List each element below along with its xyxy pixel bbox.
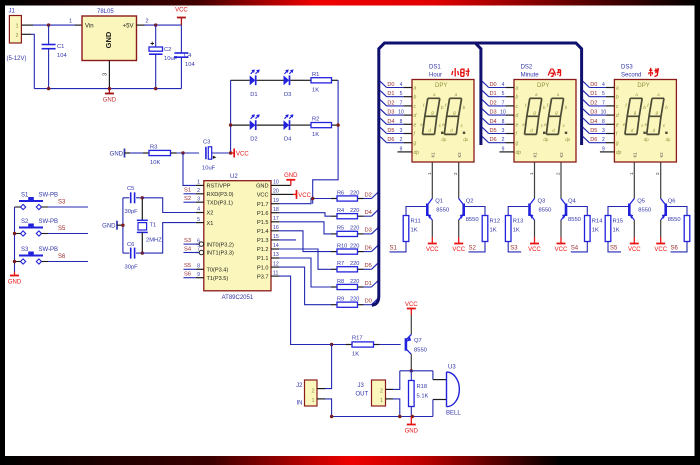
- svg-text:2: 2: [655, 172, 660, 175]
- node C5 junction: [141, 196, 144, 199]
- svg-text:D2: D2: [490, 100, 497, 106]
- svg-text:P3.7: P3.7: [257, 274, 269, 280]
- svg-text:R10: R10: [337, 243, 347, 249]
- svg-text:d: d: [616, 113, 619, 119]
- svg-text:12: 12: [273, 261, 279, 267]
- svg-text:C2: C2: [164, 47, 171, 53]
- svg-text:J1: J1: [9, 9, 16, 15]
- svg-text:b: b: [516, 95, 519, 101]
- frame bottom bar: [0, 456, 700, 465]
- svg-text:10: 10: [500, 110, 506, 116]
- svg-text:C6: C6: [127, 242, 134, 248]
- digit glyph DS1-2: [442, 92, 468, 142]
- svg-text:D3: D3: [590, 110, 597, 116]
- resistor R1: [305, 72, 338, 94]
- transistor Q5: [629, 163, 635, 244]
- pin 8 T0(P3.4): [196, 264, 229, 274]
- svg-text:9: 9: [502, 146, 505, 152]
- wire J2 pin2 up to base node: [317, 345, 332, 389]
- pin DS2 b: [482, 90, 518, 100]
- svg-text:GND: GND: [103, 98, 117, 104]
- pin DS1 a: [380, 81, 417, 91]
- svg-text:13: 13: [273, 252, 279, 258]
- power GND regulator: [103, 89, 117, 104]
- svg-text:AT89C2051: AT89C2051: [222, 295, 254, 301]
- svg-text:9: 9: [197, 272, 200, 278]
- pin DS3 c: [583, 100, 619, 110]
- svg-text:(5-12V): (5-12V): [7, 56, 27, 62]
- svg-text:1K: 1K: [513, 228, 520, 234]
- resistor R11: [403, 216, 421, 242]
- svg-text:D0: D0: [490, 82, 497, 88]
- wire R9 to bus: [364, 304, 372, 306]
- node bell top junction: [410, 369, 413, 372]
- wire R6 to bus: [364, 198, 372, 200]
- svg-text:D3: D3: [490, 110, 497, 116]
- svg-text:1: 1: [529, 172, 534, 175]
- wire J3 pin1 to rail: [386, 399, 400, 417]
- svg-text:3: 3: [602, 128, 605, 134]
- svg-text:8: 8: [602, 119, 605, 125]
- svg-text:D3: D3: [365, 228, 372, 234]
- svg-text:2: 2: [197, 188, 200, 194]
- wire D3-R1: [290, 79, 305, 81]
- svg-text:5: 5: [197, 217, 200, 223]
- node crystal gnd junction: [121, 224, 124, 227]
- svg-text:R17: R17: [352, 336, 363, 342]
- wire S2 to net S5: [48, 233, 88, 235]
- bus entry D0: [372, 298, 379, 305]
- wire R5 to bus: [364, 233, 372, 235]
- node LED rail junctions: [229, 123, 232, 126]
- svg-text:VCC: VCC: [528, 247, 541, 253]
- connector J2: [296, 380, 317, 407]
- svg-text:1K: 1K: [352, 352, 359, 358]
- svg-text:15: 15: [273, 234, 279, 240]
- node C6 junction: [141, 251, 144, 254]
- svg-text:S6: S6: [184, 272, 191, 278]
- svg-text:P1.3: P1.3: [257, 238, 269, 244]
- node VCC junction: [229, 151, 232, 154]
- wire J1 pin2 down to ground rail: [21, 34, 34, 88]
- wire pin to R7: [279, 249, 331, 269]
- svg-text:2MHZ: 2MHZ: [146, 238, 162, 244]
- wire P3.7 to R17: [279, 276, 346, 344]
- svg-text:dp: dp: [543, 137, 548, 142]
- node rail junctions: [47, 87, 50, 90]
- resistor R15: [605, 216, 623, 242]
- wire base Q2: [465, 207, 485, 216]
- resistor R7: [331, 267, 364, 272]
- svg-text:S3: S3: [510, 246, 518, 252]
- bell U3: [446, 365, 461, 417]
- svg-text:Q5: Q5: [637, 199, 645, 205]
- svg-text:dp: dp: [644, 137, 649, 142]
- svg-text:9: 9: [400, 146, 403, 152]
- svg-text:D3: D3: [387, 110, 394, 116]
- svg-text:D6: D6: [590, 137, 597, 143]
- node P1.7 R6 junction: [311, 197, 314, 200]
- svg-text:VCC: VCC: [628, 247, 641, 253]
- svg-text:GND: GND: [284, 173, 298, 179]
- wire J1 pin1 to U1 Vin: [21, 19, 82, 26]
- wire node to RST pin1: [183, 153, 196, 185]
- svg-text:7: 7: [400, 100, 403, 106]
- svg-text:RST/VPP: RST/VPP: [207, 184, 231, 190]
- wire net S1: [184, 193, 196, 195]
- svg-text:Hour: Hour: [429, 73, 442, 79]
- svg-text:4: 4: [502, 82, 505, 88]
- svg-text:DPY: DPY: [435, 83, 447, 89]
- svg-text:5: 5: [502, 91, 505, 97]
- svg-text:8: 8: [400, 119, 403, 125]
- svg-text:GND: GND: [104, 31, 113, 48]
- svg-text:P1.7: P1.7: [257, 202, 269, 208]
- pin DS1 g: [380, 136, 417, 146]
- svg-text:2: 2: [453, 172, 458, 175]
- wire J3 pin2 stub: [386, 388, 394, 390]
- svg-text:D5: D5: [590, 128, 597, 134]
- svg-text:OUT: OUT: [356, 392, 369, 398]
- svg-text:D1: D1: [250, 92, 257, 98]
- svg-text:D5: D5: [365, 263, 372, 269]
- pin 1 RST/VPP: [196, 180, 231, 190]
- wire R10 to bus: [364, 251, 372, 253]
- wire D2-D4: [257, 124, 284, 126]
- node rail junctions bottom: [330, 415, 333, 418]
- resistor R18 5.1K: [409, 371, 429, 417]
- pin 6 INT0(P3.2): [196, 238, 234, 248]
- svg-text:dp: dp: [666, 137, 671, 142]
- svg-text:SW-PB: SW-PB: [39, 247, 59, 253]
- pin DS3 g: [583, 136, 619, 146]
- svg-text:Q7: Q7: [414, 338, 422, 344]
- svg-text:D1: D1: [387, 91, 394, 97]
- svg-text:R13: R13: [513, 219, 524, 225]
- power GND crystal: [102, 221, 123, 230]
- wire R15 to S5: [608, 242, 621, 252]
- svg-text:e: e: [616, 122, 619, 128]
- resistor R5: [331, 231, 364, 236]
- svg-text:S4: S4: [571, 246, 579, 252]
- svg-text:D2: D2: [387, 100, 394, 106]
- svg-text:Vin: Vin: [85, 24, 94, 30]
- wire pin to R10: [279, 231, 331, 252]
- svg-text:T0(P3.4): T0(P3.4): [207, 268, 229, 274]
- svg-text:220: 220: [350, 190, 359, 196]
- wire R11 to S1: [390, 242, 407, 252]
- svg-text:a: a: [414, 86, 417, 92]
- svg-text:Q1: Q1: [435, 199, 443, 205]
- svg-text:S3: S3: [184, 238, 191, 244]
- svg-text:dp: dp: [516, 150, 522, 156]
- resistor R13: [505, 216, 523, 242]
- wire pin to R4: [279, 213, 331, 217]
- svg-text:dp: dp: [463, 137, 468, 142]
- wire GND to R3: [130, 152, 143, 154]
- svg-text:R1: R1: [312, 72, 319, 78]
- wire D4-R2: [290, 124, 305, 126]
- svg-text:220: 220: [350, 261, 359, 267]
- svg-text:1: 1: [15, 24, 18, 30]
- svg-text:S5: S5: [58, 226, 66, 232]
- wire ground rail: [34, 88, 181, 90]
- svg-text:2: 2: [380, 389, 383, 395]
- svg-text:Q3: Q3: [538, 199, 546, 205]
- power VCC Q4 emitter: [555, 244, 568, 254]
- wire C3 to VCC node: [212, 152, 231, 154]
- svg-text:VCC: VCC: [298, 193, 311, 199]
- svg-text:DPY: DPY: [637, 83, 649, 89]
- svg-text:R9: R9: [337, 297, 344, 303]
- svg-text:D2: D2: [365, 192, 372, 198]
- power VCC Q3 emitter: [528, 244, 541, 254]
- power GND R3: [110, 149, 130, 158]
- svg-text:DS2: DS2: [521, 65, 533, 71]
- pin 7 INT1(P3.3): [196, 247, 234, 257]
- wire pin to R9: [279, 267, 331, 305]
- svg-text:S3: S3: [21, 247, 29, 253]
- capacitor C6 30pF: [123, 242, 142, 271]
- wire LED row2: [231, 124, 250, 126]
- svg-text:K1: K1: [633, 152, 638, 158]
- wire net S4: [184, 252, 200, 254]
- digit glyph DS2-1: [522, 92, 548, 142]
- svg-text:D4: D4: [284, 137, 292, 143]
- svg-text:1K: 1K: [490, 228, 497, 234]
- svg-text:5: 5: [400, 91, 403, 97]
- wire pin15 stub: [279, 239, 296, 241]
- svg-text:D3: D3: [284, 92, 291, 98]
- svg-text:7: 7: [502, 100, 505, 106]
- svg-text:19: 19: [273, 198, 279, 204]
- wire base Q3: [508, 207, 528, 216]
- svg-text:4: 4: [197, 207, 200, 213]
- wire pin to R5: [279, 222, 331, 234]
- resistor R4: [331, 214, 364, 219]
- svg-text:8550: 8550: [466, 217, 479, 223]
- power VCC Q2 emitter: [452, 244, 465, 254]
- pin DS2 dp: [500, 146, 522, 156]
- digit glyph DS3-1: [623, 92, 649, 142]
- wire loop right to bell: [432, 371, 434, 380]
- wire U1 pin3 to ground: [103, 61, 110, 89]
- pin DS2 d: [482, 109, 518, 119]
- wire bottom ground rail: [332, 416, 433, 418]
- svg-text:20: 20: [273, 189, 279, 195]
- svg-text:D1: D1: [590, 91, 597, 97]
- svg-text:R8: R8: [337, 279, 344, 285]
- wire base Q5: [608, 207, 628, 216]
- svg-text:10uF: 10uF: [202, 166, 216, 172]
- svg-text:1: 1: [380, 398, 383, 404]
- svg-text:VCC: VCC: [555, 247, 568, 253]
- svg-text:D4: D4: [387, 119, 394, 125]
- svg-text:Minute: Minute: [521, 73, 540, 79]
- power VCC Q5 emitter: [628, 244, 641, 254]
- label chinese Hour: [452, 68, 470, 77]
- wire J2 pin1 to ground rail: [317, 399, 332, 417]
- crystal T1 2MHZ: [137, 198, 162, 253]
- wire R4 to bus: [364, 215, 372, 217]
- digit glyph DS2-2: [544, 92, 570, 142]
- svg-text:D2: D2: [590, 100, 597, 106]
- svg-text:8550: 8550: [436, 208, 449, 214]
- svg-text:Q6: Q6: [668, 199, 676, 205]
- svg-text:RXD(P3.0): RXD(P3.0): [207, 192, 234, 198]
- svg-text:D4: D4: [490, 119, 497, 125]
- svg-text:VCC: VCC: [405, 302, 418, 308]
- bus entry D5: [372, 263, 379, 270]
- pin 12 P1.0: [257, 261, 279, 271]
- wire R17 to Q7 base: [380, 344, 401, 346]
- svg-text:P1.0: P1.0: [257, 265, 269, 271]
- pin 4 X2: [196, 207, 214, 217]
- switch S2 SW-PB: [15, 219, 59, 236]
- svg-text:3: 3: [197, 196, 200, 202]
- svg-text:X2: X2: [207, 211, 214, 217]
- svg-text:VCC: VCC: [175, 8, 188, 14]
- svg-text:7: 7: [197, 247, 200, 253]
- capacitor C3 10uF: [202, 140, 216, 172]
- svg-text:D1: D1: [365, 281, 372, 287]
- svg-text:DPY: DPY: [537, 83, 549, 89]
- pin 9 T1(P3.5): [196, 272, 229, 282]
- svg-text:R12: R12: [490, 219, 501, 225]
- wire crystal left rail: [122, 198, 124, 253]
- bus main: [372, 43, 582, 305]
- svg-text:R5: R5: [337, 226, 344, 232]
- svg-text:R11: R11: [411, 219, 421, 225]
- node RST junction: [181, 151, 184, 154]
- power GND pin10: [279, 173, 298, 185]
- node switch junctions: [13, 232, 16, 235]
- bus entry D2: [372, 192, 379, 199]
- wire R16 to S6: [671, 242, 688, 252]
- svg-text:S2: S2: [21, 219, 29, 225]
- wire C5 to X2 pin4: [142, 198, 196, 213]
- wire net S3: [184, 243, 200, 245]
- svg-text:C4: C4: [184, 53, 192, 59]
- wire LED left rail: [230, 80, 232, 153]
- pin DS1 f: [380, 127, 416, 137]
- svg-text:S6: S6: [671, 246, 679, 252]
- wire R12 to S2: [469, 242, 486, 252]
- svg-text:8550: 8550: [539, 208, 552, 214]
- svg-text:VCC: VCC: [257, 193, 269, 199]
- svg-text:10K: 10K: [150, 160, 160, 166]
- svg-text:g: g: [414, 141, 417, 147]
- wire net S6: [184, 277, 196, 279]
- wire R8 to bus: [364, 286, 372, 288]
- svg-text:DS3: DS3: [621, 65, 633, 71]
- power VCC Q6 emitter: [654, 244, 667, 254]
- pin DS1 dp: [398, 146, 420, 156]
- svg-text:P1.1: P1.1: [257, 256, 269, 262]
- transistor Q7 8550: [406, 335, 427, 355]
- svg-text:10: 10: [398, 110, 404, 116]
- svg-text:14: 14: [273, 243, 279, 249]
- resistor R2: [305, 117, 338, 139]
- connector J1: [7, 9, 27, 63]
- pin DS3 d: [583, 109, 619, 119]
- bus branch DS2: [475, 43, 481, 145]
- transistor Q3: [529, 163, 535, 244]
- svg-text:18: 18: [273, 207, 279, 213]
- wire LED right rail to P1.7 net: [313, 80, 338, 203]
- wire U1 +5V to VCC: [137, 19, 182, 26]
- svg-text:1K: 1K: [592, 228, 599, 234]
- pin 20 VCC: [257, 189, 279, 199]
- capacitor C4: [174, 25, 195, 89]
- svg-text:S1: S1: [390, 246, 398, 252]
- bus entry D6: [372, 245, 379, 252]
- svg-text:TXD(P3.1): TXD(P3.1): [207, 200, 234, 206]
- wire S1 to net S3: [48, 206, 88, 208]
- power VCC Q1 emitter: [426, 244, 439, 254]
- svg-text:8: 8: [197, 264, 200, 270]
- svg-text:X1: X1: [207, 221, 214, 227]
- svg-text:D1: D1: [490, 91, 497, 97]
- svg-text:11: 11: [273, 270, 278, 276]
- svg-text:P1.6: P1.6: [257, 211, 269, 217]
- svg-text:INT1(P3.3): INT1(P3.3): [207, 251, 234, 257]
- power VCC top: [175, 8, 188, 26]
- svg-text:3: 3: [400, 128, 403, 134]
- svg-text:Second: Second: [621, 73, 641, 79]
- svg-text:P1.2: P1.2: [257, 247, 269, 253]
- svg-text:1K: 1K: [411, 228, 418, 234]
- svg-text:3: 3: [103, 73, 109, 76]
- power GND switches: [8, 272, 22, 286]
- svg-text:U3: U3: [448, 365, 456, 371]
- svg-text:1K: 1K: [312, 132, 319, 138]
- capacitor C2 10uF: [149, 25, 178, 89]
- resistor R6: [331, 196, 364, 201]
- svg-text:K2: K2: [659, 152, 664, 158]
- svg-text:VCC: VCC: [426, 247, 439, 253]
- svg-text:8: 8: [502, 119, 505, 125]
- svg-text:K2: K2: [457, 152, 462, 158]
- svg-text:220: 220: [350, 208, 359, 214]
- connector J3: [356, 380, 386, 406]
- transistor Q1: [427, 163, 433, 244]
- wire base Q4: [567, 207, 587, 216]
- svg-text:T1: T1: [150, 223, 157, 229]
- svg-text:104: 104: [185, 62, 195, 68]
- svg-text:1: 1: [629, 172, 634, 175]
- svg-text:BELL: BELL: [446, 411, 461, 417]
- node R17 junction: [330, 343, 333, 346]
- wire switch common rail: [14, 207, 16, 272]
- node U1-C2 junction: [154, 23, 157, 26]
- svg-text:GND: GND: [8, 280, 22, 286]
- svg-text:D6: D6: [490, 137, 497, 143]
- wire LED row1: [231, 79, 250, 81]
- svg-text:16: 16: [273, 225, 279, 231]
- svg-text:SW-PB: SW-PB: [39, 193, 59, 199]
- wire loop left to J3 pin2: [393, 371, 400, 390]
- svg-text:R18: R18: [417, 384, 428, 390]
- svg-text:dp: dp: [565, 137, 570, 142]
- svg-text:D5: D5: [387, 128, 394, 134]
- pin 16 P1.4: [257, 225, 279, 235]
- svg-text:D2: D2: [250, 137, 257, 143]
- svg-text:220: 220: [350, 297, 359, 303]
- svg-text:IN: IN: [297, 401, 303, 407]
- wire bell loop top: [400, 370, 433, 372]
- svg-text:J3: J3: [358, 383, 365, 389]
